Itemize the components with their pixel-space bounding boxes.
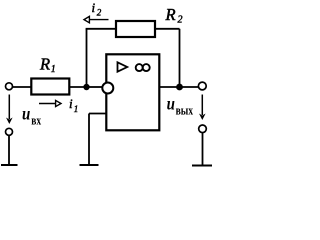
resistor R2 [116,21,155,37]
op-amp inverting input bubble [102,83,113,94]
svg-text:u: u [22,103,30,124]
wire left ground vertical [8,135,10,165]
wire node A to inverting input [87,86,103,88]
svg-text:2: 2 [97,7,102,17]
arrow u_vyx [199,95,206,121]
svg-text:вых: вых [176,104,194,118]
arrow u_vx [6,95,13,125]
ground middle bar [80,164,99,166]
svg-text:i: i [69,96,73,111]
node B junction dot [176,84,183,91]
ground left bar [1,164,18,166]
resistor R1 [31,79,69,95]
svg-text:вх: вх [31,114,41,128]
node A junction dot [83,84,89,90]
arrow i1 [39,100,61,106]
svg-text:R: R [165,5,176,24]
svg-text:1: 1 [51,64,56,75]
wire feedback left vertical [86,29,88,87]
wire R2 to feedback right vertical [155,28,180,30]
svg-text:u: u [167,93,175,114]
ground right bar [192,165,213,167]
wire right ground vertical [202,133,204,166]
svg-text:R: R [39,55,50,74]
wire middle ground vertical [88,114,90,166]
terminal input bottom [6,128,13,135]
terminal input top [6,83,13,90]
svg-text:2: 2 [178,15,183,26]
wire op-amp output [160,86,199,88]
wire feedback right vertical [179,29,181,87]
terminal output top [198,82,206,90]
op-amp U1 body [106,54,159,130]
arrow i2 [84,16,109,22]
op-amp infinity symbol [136,64,150,71]
wire input terminal to R1 [12,86,32,88]
op-amp triangle symbol [118,62,128,71]
svg-text:1: 1 [74,104,79,114]
svg-text:i: i [92,0,96,15]
terminal output bottom [199,125,207,133]
wire feedback top to R2 [86,28,117,30]
wire R1 to node A [69,86,87,88]
wire non-inverting input stub [89,113,106,115]
